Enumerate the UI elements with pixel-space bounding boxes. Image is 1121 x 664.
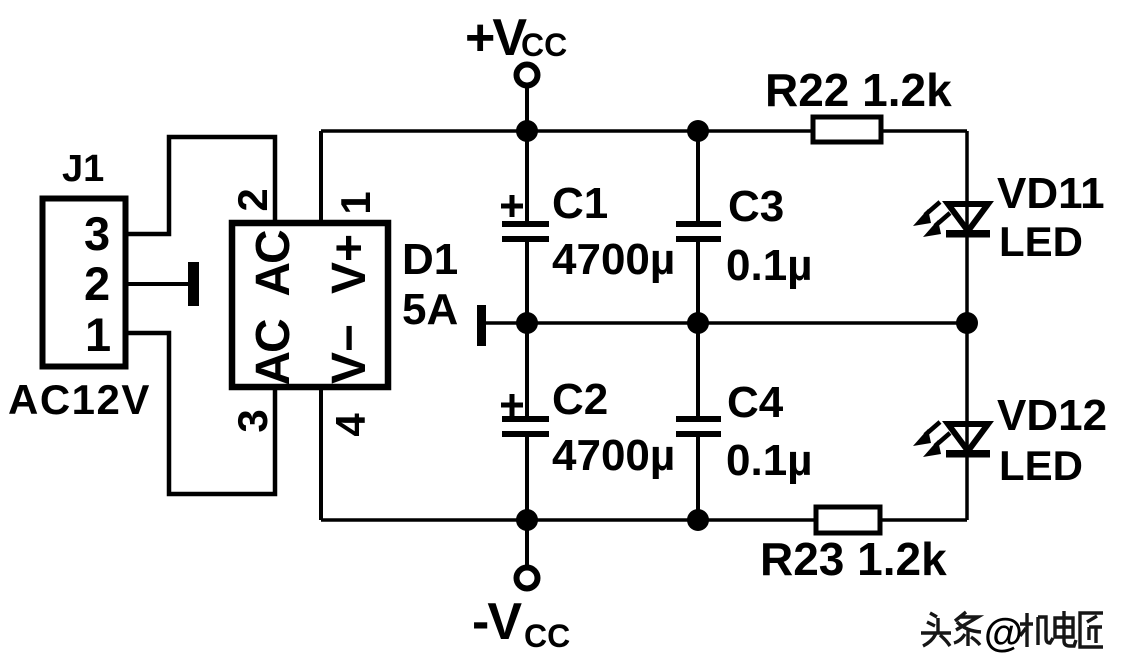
svg-text:3: 3 [84, 207, 110, 260]
terminal +Vcc [517, 65, 538, 132]
svg-text:0.1µ: 0.1µ [726, 436, 813, 485]
svg-text:D1: D1 [402, 235, 458, 284]
svg-text:V−: V− [323, 324, 376, 384]
capacitor C1 [501, 131, 549, 323]
wire right column [965, 131, 969, 520]
svg-text:+V: +V [465, 9, 527, 67]
wire bottom rail [321, 518, 967, 522]
svg-text:0.1µ: 0.1µ [726, 241, 813, 290]
capacitor C3 [676, 131, 721, 323]
svg-text:V+: V+ [323, 234, 376, 294]
middle rail terminator bar [477, 305, 486, 346]
bridge rectifier D1 [232, 223, 388, 387]
svg-text:1: 1 [85, 308, 111, 361]
svg-text:4700µ: 4700µ [552, 431, 675, 480]
svg-text:2: 2 [84, 257, 110, 310]
svg-text:C1: C1 [552, 179, 608, 228]
svg-text:C4: C4 [727, 378, 784, 427]
svg-text:CC: CC [524, 618, 570, 654]
svg-text:@: @ [984, 611, 1023, 655]
svg-text:R23 1.2k: R23 1.2k [760, 533, 947, 585]
junction top rail / C3 [687, 120, 709, 142]
resistor R22 [813, 117, 881, 142]
svg-text:CC: CC [521, 27, 567, 63]
-Vcc label [472, 593, 570, 654]
svg-text:AC: AC [247, 319, 300, 386]
wire D1 pin4 to bottom rail [319, 388, 323, 520]
capacitor C4 [676, 323, 721, 520]
svg-text:3: 3 [229, 409, 276, 432]
svg-text:LED: LED [999, 218, 1083, 265]
wire top rail [321, 129, 967, 133]
junction bottom rail / C4 [687, 509, 709, 531]
junction middle rail / C1 [516, 312, 538, 334]
svg-text:-V: -V [472, 593, 522, 651]
wire J1 pin1 to D1 pin3 [126, 333, 275, 494]
junction top rail / C1 [516, 120, 538, 142]
svg-text:4700µ: 4700µ [552, 235, 675, 284]
svg-text:4: 4 [327, 413, 374, 437]
svg-text:VD11: VD11 [997, 169, 1105, 218]
svg-text:5A: 5A [402, 285, 458, 334]
wire J1 pin3 to D1 pin2 [126, 137, 275, 234]
junction bottom rail / C2 [516, 509, 538, 531]
watermark [921, 611, 1103, 647]
svg-text:VD12: VD12 [997, 391, 1107, 440]
svg-text:AC12V: AC12V [8, 376, 151, 423]
+Vcc label [465, 9, 567, 67]
wire middle rail [486, 321, 967, 325]
junction middle rail / LED column [956, 312, 978, 334]
capacitor C2 [501, 323, 549, 520]
svg-text:2: 2 [229, 188, 276, 211]
svg-text:AC: AC [247, 230, 300, 297]
wire J1 pin2 stub [126, 282, 190, 286]
junction middle rail / C3 [687, 312, 709, 334]
svg-text:C3: C3 [728, 182, 784, 231]
connector J1 [43, 199, 126, 367]
LED VD11 [913, 202, 990, 238]
svg-text:J1: J1 [62, 148, 104, 190]
wire D1 pin1 to top rail [319, 131, 323, 222]
svg-text:R22 1.2k: R22 1.2k [765, 64, 952, 116]
terminal -Vcc [517, 520, 538, 589]
svg-text:LED: LED [999, 442, 1083, 489]
LED VD12 [913, 422, 990, 458]
svg-text:C2: C2 [552, 375, 608, 424]
svg-text:1: 1 [332, 191, 379, 214]
resistor R23 [816, 507, 880, 533]
J1 pin2 terminator bar [188, 262, 199, 306]
